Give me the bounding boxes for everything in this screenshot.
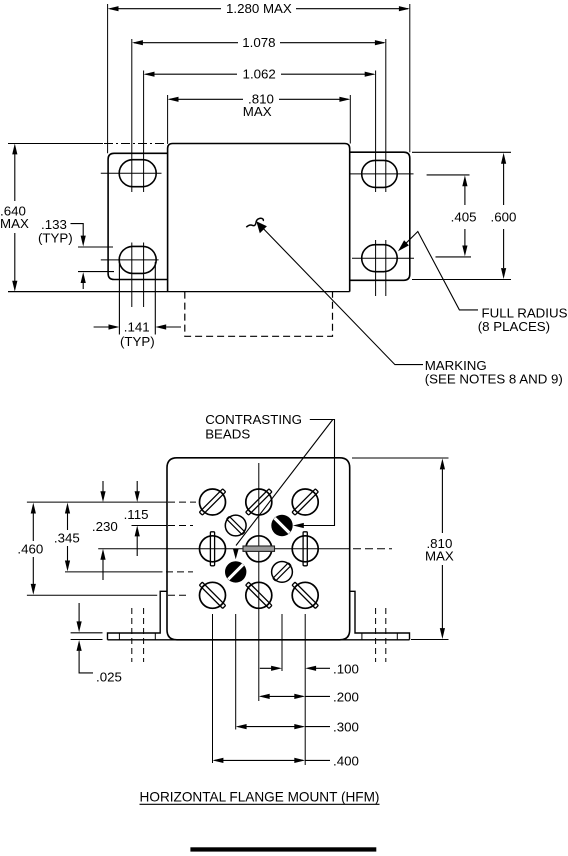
pin row extension line row5 — [27, 594, 157, 596]
pin A2 large slotted — [246, 489, 272, 515]
dashed hole centerlines right plate — [376, 608, 386, 662]
svg-text:.200: .200 — [333, 690, 359, 705]
right flange bracket (side profile) — [350, 591, 410, 640]
dimension .345 — [54, 503, 80, 572]
svg-text:.230: .230 — [92, 519, 118, 534]
svg-text:.115: .115 — [124, 507, 149, 522]
relay body outline (top view) — [168, 144, 350, 292]
svg-text:.345: .345 — [54, 531, 80, 546]
dimension 1.078 — [132, 35, 386, 50]
leader to bead D1 — [236, 420, 333, 546]
slot hole upper-left — [119, 160, 156, 187]
hidden base outline (dashed) — [185, 292, 333, 337]
TOP VIEW GROUP — [0, 1, 568, 386]
hole centerline verticals lower-right — [376, 240, 386, 296]
pin B1 small slotted — [225, 515, 246, 536]
relay body outline (bottom view) — [167, 458, 350, 640]
bottom edge long line through flange plates — [108, 639, 410, 641]
vertical centerline through center pin column — [258, 463, 260, 701]
svg-text:MAX: MAX — [425, 549, 454, 564]
pin E3 large slotted — [292, 582, 318, 608]
pin column extension lines to bottom dims — [213, 614, 306, 765]
pin C1 large vertical slot — [200, 532, 226, 566]
svg-text:.141: .141 — [124, 320, 150, 335]
BOTTOM VIEW GROUP — [17, 412, 454, 852]
dimension 1.280 MAX — [108, 1, 410, 16]
svg-text:MAX: MAX — [243, 104, 272, 119]
extension line .810 left — [167, 95, 169, 144]
dimension .200 — [259, 690, 359, 705]
dimension 1.062 — [144, 66, 376, 81]
pin row extension line row1 — [27, 501, 167, 503]
svg-text:(SEE NOTES 8 AND 9): (SEE NOTES 8 AND 9) — [425, 372, 563, 387]
svg-text:1.062: 1.062 — [243, 66, 276, 81]
svg-text:(TYP): (TYP) — [120, 334, 155, 349]
svg-text:1.078: 1.078 — [242, 35, 275, 50]
slot edge ticks on right plate — [362, 633, 397, 640]
extension line .810 right — [349, 95, 351, 144]
svg-text:CONTRASTING: CONTRASTING — [205, 412, 302, 427]
label CONTRASTING BEADS — [205, 412, 334, 559]
hole centerline verticals upper-left — [132, 39, 144, 192]
dimension .405 — [427, 175, 477, 257]
leader FULL RADIUS — [398, 232, 568, 335]
next-figure black bar (cropped) — [190, 847, 376, 851]
pin C2 large horizontal gray slot — [243, 536, 275, 562]
dimension .230 — [92, 481, 118, 580]
dimension .133 TYP — [38, 217, 114, 289]
leader MARKING with arrow — [256, 221, 563, 386]
pin grid — [199, 489, 318, 609]
dimension .600 — [412, 152, 516, 279]
extension line 1.280 right — [409, 4, 411, 152]
hole centerline verticals lower-left — [132, 243, 144, 308]
hole horizontal centerlines right — [350, 174, 414, 258]
pin row extension line row4 — [65, 571, 163, 573]
slot hole upper-right — [362, 160, 398, 187]
svg-text:.600: .600 — [491, 210, 517, 225]
svg-text:BEADS: BEADS — [205, 427, 250, 442]
svg-text:.405: .405 — [451, 210, 477, 225]
dimension .115 — [124, 481, 149, 556]
leader to bead B2 — [302, 420, 335, 526]
svg-text:.460: .460 — [17, 542, 43, 557]
hole horizontal centerlines left — [101, 173, 162, 260]
pin row extension line row2 — [132, 525, 168, 527]
dimension .810 MAX right — [352, 458, 454, 640]
svg-text:(TYP): (TYP) — [38, 231, 73, 246]
left flange bracket (side profile) — [108, 591, 168, 640]
contrasting bead B2 (filled) — [271, 515, 292, 536]
svg-text:.025: .025 — [96, 670, 122, 685]
svg-text:.100: .100 — [333, 662, 359, 677]
right mounting flange — [350, 152, 410, 280]
horizontal centerline middle pin row — [98, 548, 350, 550]
pin A1 large slotted — [199, 489, 225, 515]
dimension .640 MAX — [0, 144, 29, 292]
pin E2 large slotted — [246, 582, 272, 608]
dimension .300 — [236, 720, 359, 735]
dimension .025 — [71, 603, 122, 685]
left mounting flange — [108, 153, 168, 279]
contrasting bead D1 (filled) — [225, 561, 246, 582]
pin A3 large slotted — [292, 489, 318, 515]
svg-text:1.280 MAX: 1.280 MAX — [226, 1, 292, 16]
svg-text:MAX: MAX — [0, 216, 29, 231]
dimension .460 — [17, 503, 43, 595]
svg-text:(8 PLACES): (8 PLACES) — [478, 319, 550, 334]
pin E1 large slotted — [199, 582, 225, 608]
dashed hole centerlines left plate — [132, 608, 144, 662]
slot edge ticks on left plate — [119, 633, 155, 640]
svg-text:.400: .400 — [333, 753, 359, 768]
svg-text:HORIZONTAL FLANGE MOUNT (HFM): HORIZONTAL FLANGE MOUNT (HFM) — [140, 790, 380, 805]
.640 top extension with dash-dot across flange — [8, 143, 103, 145]
dimension .141 TYP — [94, 262, 181, 349]
pin C3 large vertical slot — [292, 532, 318, 566]
pin D2 small slotted — [272, 562, 293, 583]
svg-text:.300: .300 — [333, 720, 359, 735]
marking squiggle symbol — [246, 218, 263, 227]
extension line 1.280 left — [107, 4, 109, 153]
slot hole lower-right — [362, 245, 398, 272]
dimension .100 — [260, 662, 359, 677]
body bottom edge + .640 extension line — [8, 291, 350, 293]
dimension .400 — [213, 753, 359, 768]
dimension .810 MAX — [168, 92, 351, 120]
hole centerline verticals upper-right — [376, 39, 386, 192]
slot hole lower-left — [119, 246, 156, 273]
